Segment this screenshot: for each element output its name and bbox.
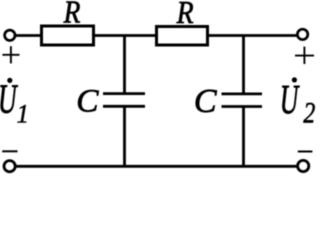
capacitor C2 bottom plate [222, 105, 263, 108]
terminal bottom-left [4, 161, 15, 172]
terminal top-right [297, 29, 307, 39]
minus sign right [298, 151, 313, 153]
svg-text:R: R [63, 0, 81, 30]
capacitor C1 wire to bottom wire [123, 106, 126, 167]
svg-text:C: C [194, 83, 217, 120]
capacitor C1 bottom plate [103, 105, 145, 108]
svg-text:U: U [280, 77, 300, 123]
capacitor C1 top plate [103, 92, 145, 95]
wire: top-left terminal to R1 [16, 34, 41, 37]
capacitor C2 wire to bottom wire [242, 107, 245, 168]
wire: R1 to R2, junction to C1 branch [95, 34, 156, 37]
svg-text:C: C [76, 83, 99, 120]
node U2 label [280, 77, 315, 130]
terminal bottom-right [298, 160, 309, 171]
svg-text:R: R [176, 0, 194, 30]
svg-text:1: 1 [17, 99, 29, 129]
plus sign right [295, 47, 314, 64]
svg-text:U: U [0, 76, 18, 122]
wire: R2 to top-right terminal, junction to C2 branch [208, 34, 298, 37]
svg-text:2: 2 [303, 96, 315, 129]
capacitor C1 wire from top junction [123, 36, 126, 94]
minus sign left [2, 150, 17, 152]
capacitor C2 top plate [222, 93, 263, 96]
resistor R1 [42, 26, 94, 45]
bottom wire [16, 165, 298, 168]
node U1 label [0, 76, 29, 128]
capacitor C2 wire from top junction [242, 36, 245, 94]
terminal top-left [5, 30, 15, 40]
plus sign left [2, 46, 19, 63]
resistor R2 [157, 27, 208, 46]
